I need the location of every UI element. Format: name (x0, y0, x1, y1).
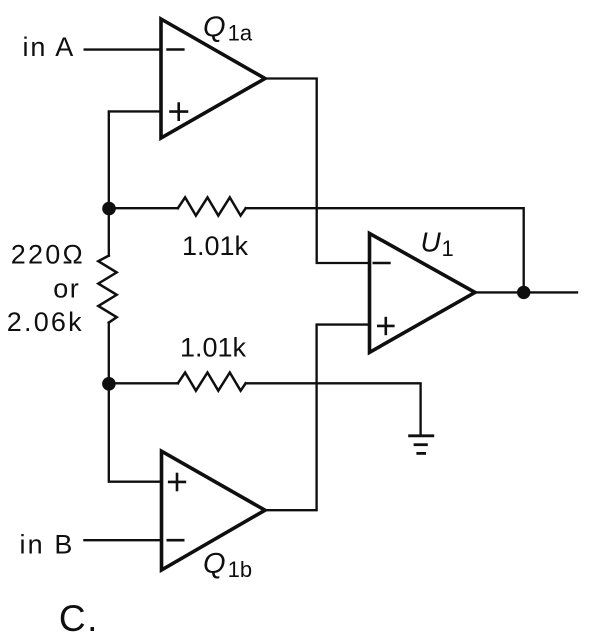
op-amp Q1b (162, 451, 266, 570)
svg-text:1.01k: 1.01k (180, 333, 247, 363)
svg-text:Q: Q (203, 548, 226, 580)
wire: node A to R1 (108, 208, 110, 255)
svg-text:1b: 1b (228, 557, 252, 582)
label Q1b (203, 548, 252, 582)
label Q1a (203, 11, 253, 45)
node B junction (102, 377, 116, 391)
wire: R2 to output node (feedback) (246, 208, 524, 292)
svg-text:1: 1 (442, 236, 454, 261)
svg-text:1.01k: 1.01k (182, 231, 249, 261)
wire: node A to resistor R2 (109, 207, 178, 209)
svg-text:U: U (421, 227, 442, 258)
wire: node B to resistor R3 (109, 382, 178, 384)
wire: Q1b output up to U1 noninverting input (263, 325, 370, 511)
svg-text:in A: in A (23, 32, 76, 62)
wire: R1 to node B (108, 323, 110, 384)
wire: R3 to ground (246, 383, 421, 436)
wire: Q1b noninverting input to node B (109, 384, 162, 482)
resistor R2 1.01k (top) (178, 197, 246, 215)
output node junction (517, 286, 530, 299)
node A junction (102, 202, 116, 216)
svg-text:220Ω: 220Ω (11, 239, 85, 269)
wire: Q1a output down to U1 inverting input (263, 79, 370, 264)
svg-text:or: or (53, 273, 80, 303)
svg-text:C.: C. (59, 598, 99, 639)
wire: in B to Q1b inverting input (84, 539, 161, 541)
value label 220 ohm or 2.06k (7, 239, 85, 337)
resistor R1 gain resistor (vertical) (98, 256, 116, 323)
wire: in A to Q1a inverting input (85, 48, 161, 50)
svg-text:Q: Q (203, 11, 226, 43)
wire: U1 output to output node and out (475, 291, 578, 293)
svg-text:in B: in B (20, 530, 75, 560)
resistor R3 1.01k (bottom) (178, 373, 246, 391)
wire: Q1a noninverting input to node A (109, 111, 161, 208)
svg-text:2.06k: 2.06k (7, 307, 84, 337)
ground (408, 436, 434, 454)
label U1 (421, 227, 454, 261)
op-amp U1 (370, 233, 476, 352)
op-amp Q1a (161, 19, 265, 138)
svg-text:1a: 1a (228, 20, 253, 45)
